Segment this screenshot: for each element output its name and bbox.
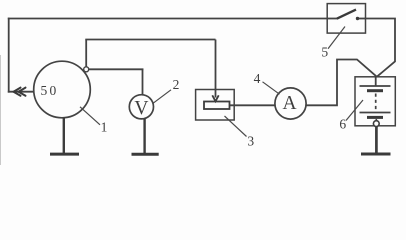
svg-text:5: 5	[321, 45, 328, 60]
wire: top horizontal	[8, 18, 328, 20]
voltmeter U2 circle	[129, 95, 153, 119]
rheostat box 3	[196, 90, 235, 121]
battery cell 2 short plate	[367, 116, 383, 119]
switch right lead	[359, 18, 366, 20]
switch left contact lead	[327, 18, 337, 20]
arrow double chevron	[14, 88, 26, 96]
battery cell 1 short plate	[367, 89, 383, 92]
battery stand base	[361, 152, 391, 155]
wire: switch to battery, right then down	[365, 19, 396, 77]
pointer line 1	[80, 107, 100, 125]
wire: node up vertical	[85, 40, 87, 68]
switch blade	[337, 10, 356, 19]
pointer line 3	[225, 116, 247, 137]
pointer line 5	[328, 27, 345, 49]
battery cell 1 long plate	[360, 85, 391, 87]
voltmeter stand base	[132, 153, 159, 156]
wire: node right horizontal to voltmeter	[89, 68, 144, 70]
rheostat resistor body	[204, 102, 230, 110]
battery stand stem	[375, 127, 378, 153]
photocell circle 1	[34, 61, 91, 118]
wire: drop into rheostat box	[215, 40, 217, 98]
svg-text:6: 6	[339, 117, 346, 132]
pointer line 4	[263, 82, 280, 94]
slider arrowhead	[212, 95, 218, 101]
switch box 5	[327, 4, 365, 33]
battery box 6	[355, 77, 395, 126]
pointer line 6	[346, 100, 363, 121]
svg-text:4: 4	[254, 71, 261, 86]
voltmeter stand stem	[143, 119, 145, 154]
svg-text:3: 3	[247, 134, 254, 149]
switch right contact dot	[356, 17, 359, 20]
wire: arrow lead into photocell	[8, 91, 35, 93]
stand base under 1	[50, 153, 79, 156]
scan edge artifact	[0, 55, 2, 165]
battery dashed link	[375, 94, 377, 111]
wire: voltmeter feed drop	[142, 69, 144, 96]
pointer line 2	[153, 90, 171, 104]
node junction	[84, 67, 89, 72]
wire: upper horizontal to rheostat	[85, 39, 215, 41]
svg-text:A: A	[282, 93, 296, 114]
battery terminal stub	[375, 119, 377, 121]
battery cell 2 long plate	[360, 112, 391, 114]
battery terminal ring	[373, 121, 379, 127]
svg-text:V: V	[134, 98, 148, 119]
wire: rheostat to ammeter	[230, 104, 276, 106]
svg-text:50: 50	[41, 83, 59, 98]
stand stem under 1	[63, 118, 65, 154]
wire: ammeter to battery, right then up	[306, 60, 377, 106]
svg-text:2: 2	[173, 77, 180, 92]
svg-text:1: 1	[101, 120, 108, 135]
battery top stub	[375, 77, 377, 86]
ammeter U4 circle	[275, 88, 306, 119]
wire: left vertical	[8, 18, 10, 93]
